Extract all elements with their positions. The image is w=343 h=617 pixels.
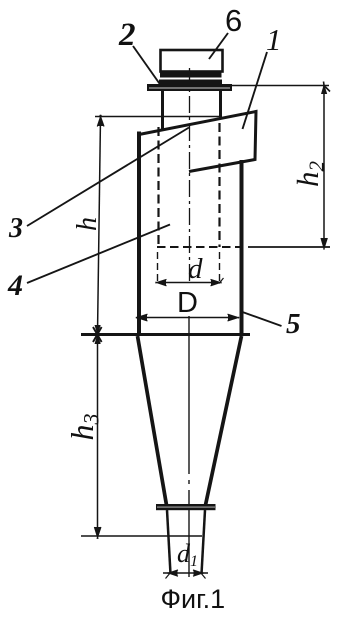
svg-text:3: 3	[8, 213, 23, 244]
svg-text:h3: h3	[64, 414, 104, 441]
svg-text:2: 2	[118, 17, 136, 53]
svg-text:h2: h2	[290, 161, 329, 188]
svg-text:d1: d1	[177, 539, 198, 570]
svg-text:5: 5	[286, 308, 301, 340]
svg-text:d: d	[188, 253, 203, 285]
svg-text:6: 6	[225, 3, 242, 38]
svg-text:h: h	[72, 217, 103, 231]
svg-text:4: 4	[7, 269, 23, 302]
svg-text:D: D	[177, 287, 198, 319]
svg-text:Фиг.1: Фиг.1	[161, 584, 226, 614]
svg-text:1: 1	[266, 22, 282, 57]
